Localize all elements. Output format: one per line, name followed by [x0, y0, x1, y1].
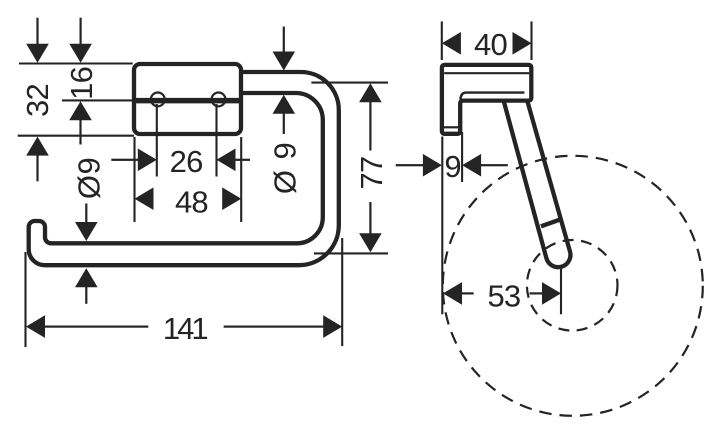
dim 16 bottom arrow (up): [69, 101, 92, 120]
dim 9 side left arrow: [423, 154, 442, 177]
side view bottom lip line: [444, 126, 458, 128]
svg-text:40: 40: [474, 27, 507, 62]
roll holder bar front view: [29, 72, 339, 265]
dim 53 right arrow: [542, 282, 561, 305]
dim 141 left arrow: [26, 315, 45, 338]
side view arm (tapered, white filled over circles): [504, 101, 571, 268]
extension line 77 top: [311, 82, 388, 84]
dim 16 top arrow (down): [69, 44, 92, 63]
side wall line / 53 left extension: [441, 137, 443, 315]
dim o9 right bottom arrow (up): [273, 95, 296, 114]
dim 77 top arrow (up): [359, 83, 382, 102]
extension line 48 right: [240, 137, 242, 222]
dim 141 right arrow: [323, 315, 342, 338]
big dashed roll circle (side view): [443, 156, 703, 416]
dim 32 top arrow (down): [26, 44, 49, 63]
dim 40 right arrow: [513, 32, 532, 55]
dim o9 left bottom arrow (up): [75, 268, 98, 287]
screw hole left: [151, 93, 165, 107]
svg-text:Ø 9: Ø 9: [268, 141, 303, 194]
plate divider edge: [134, 98, 241, 104]
side view body outline: [442, 65, 531, 134]
extension line 26 right: [215, 104, 217, 177]
reference line 16 below top: [62, 99, 134, 101]
dim 26 right arrow: [217, 149, 236, 172]
dim 77 bottom arrow (down): [359, 233, 382, 252]
wall plate front view: [134, 64, 241, 134]
dim o9 right top arrow (down): [273, 52, 296, 71]
extension line 26 left: [156, 104, 158, 177]
dim 40 left arrow: [442, 32, 461, 55]
screw hole right: [212, 93, 226, 107]
svg-text:32: 32: [20, 84, 55, 117]
extension line 48 left: [133, 137, 135, 222]
svg-text:16: 16: [64, 67, 99, 100]
small dashed core circle (side view): [527, 240, 618, 331]
dim 9 side right arrow: [462, 154, 481, 177]
svg-text:48: 48: [175, 184, 208, 219]
dim 32 bottom arrow (up): [26, 137, 49, 156]
arm joint tick: [541, 219, 563, 227]
extension line 77 bottom: [314, 252, 388, 254]
side extension line 40 left: [441, 21, 443, 60]
side extension line 9 right: [461, 132, 463, 182]
svg-text:9: 9: [444, 149, 460, 184]
extension line 141 left: [24, 252, 26, 347]
roll axis tick / 53 right extension: [560, 269, 562, 315]
svg-text:141: 141: [163, 311, 207, 346]
side extension line 40 right: [530, 21, 532, 60]
reference line bottom of plate (32): [18, 135, 134, 137]
side view front face line: [444, 72, 529, 74]
svg-text:53: 53: [487, 278, 520, 313]
dim 48 right arrow: [222, 187, 241, 210]
reference line top of plate (32/16 datum): [19, 62, 133, 64]
dim 26 left arrow: [138, 149, 157, 172]
svg-text:26: 26: [170, 144, 203, 179]
dim o9 left top arrow (down): [75, 222, 98, 241]
dim 48 left arrow: [135, 187, 154, 210]
side view arm bracket line: [460, 93, 524, 100]
extension line 141 right: [341, 238, 343, 346]
svg-text:Ø9: Ø9: [71, 157, 106, 199]
dim 53 left arrow: [443, 282, 462, 305]
svg-text:77: 77: [354, 157, 389, 190]
